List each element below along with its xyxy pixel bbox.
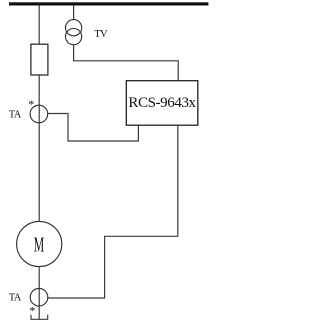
svg-text:TV: TV (94, 29, 108, 40)
voltage transformer TV winding 2 (66, 28, 82, 44)
ground (31, 315, 48, 320)
relay U1 RCS-9643x box (126, 81, 198, 126)
wire motor to TA2 and ground (38, 267, 40, 320)
svg-text:M: M (34, 232, 45, 256)
voltage transformer TV winding 1 (66, 20, 82, 36)
wire RCS-9643x pin 2 to TA2 (48, 125, 178, 298)
wire TV to RCS-9643x top pin (74, 45, 179, 81)
current transformer TA (upper) (30, 105, 48, 123)
fuse FU rectangle (31, 44, 48, 75)
wire busbar to TV (73, 5, 75, 20)
wire fuse to motor (through TA) (38, 75, 40, 222)
svg-text:TA: TA (9, 293, 22, 304)
svg-text:*: * (29, 304, 35, 318)
current transformer TA (lower) (30, 288, 48, 306)
busbar (9, 2, 208, 5)
wire busbar to fuse FU (38, 5, 40, 44)
svg-text:*: * (28, 97, 34, 111)
motor M (17, 221, 62, 266)
svg-text:TA: TA (9, 109, 22, 120)
wire TA to RCS-9643x pin 1 (48, 114, 139, 142)
svg-text:RCS-9643x: RCS-9643x (128, 95, 196, 111)
